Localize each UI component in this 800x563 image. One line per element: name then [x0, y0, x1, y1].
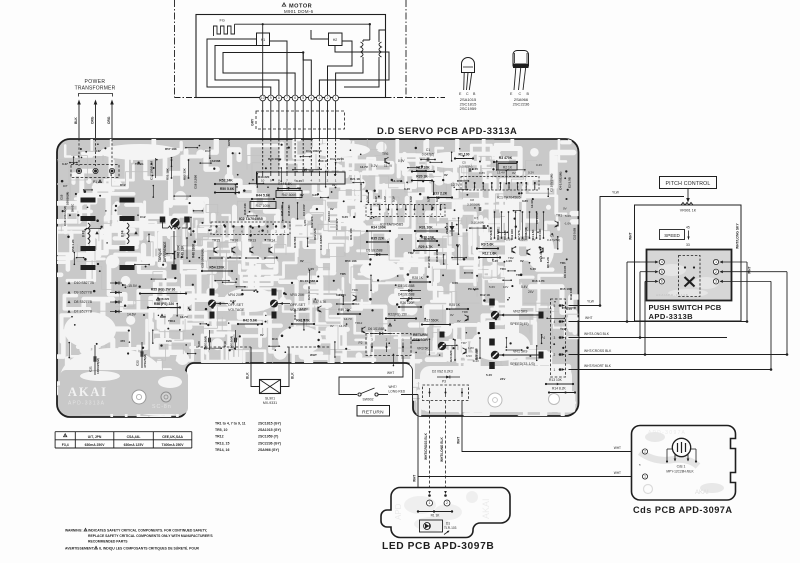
svg-text:R40 10K: R40 10K	[293, 308, 297, 320]
PUSH SWITCH PCB board	[647, 250, 732, 301]
transformer wires dashed inside board to P1	[78, 139, 80, 166]
svg-text:R58 1.2K: R58 1.2K	[71, 238, 75, 252]
svg-text:R50 10K: R50 10K	[345, 259, 358, 263]
svg-text:R57 10K: R57 10K	[165, 147, 178, 151]
resistor R33 2.2K	[428, 197, 452, 199]
svg-text:R18 10K: R18 10K	[435, 249, 439, 262]
svg-text:C10 47P: C10 47P	[335, 218, 339, 230]
svg-text:C16 100/16(M): C16 100/16(M)	[63, 206, 67, 226]
trimmer VR6 30K TORQUE DIFFERENCE	[160, 217, 166, 223]
svg-text:6: 6	[294, 96, 296, 100]
resistor R9 5.6K	[477, 248, 498, 250]
svg-text:OFF-SET: OFF-SET	[228, 303, 244, 307]
svg-text:630mA 250V: 630mA 250V	[85, 443, 106, 447]
svg-text:P9 3.6K: P9 3.6K	[468, 287, 480, 291]
svg-text:YLW: YLW	[612, 191, 620, 195]
svg-text:10V: 10V	[503, 285, 508, 289]
svg-text:3.3/16(M): 3.3/16(M)	[471, 221, 484, 225]
svg-text:0V: 0V	[330, 324, 334, 328]
svg-text:1.0V: 1.0V	[506, 259, 512, 263]
svg-text:YLW: YLW	[587, 300, 595, 304]
svg-text:TLR-103: TLR-103	[444, 526, 457, 530]
svg-text:*: *	[639, 463, 641, 468]
svg-text:0.8V: 0.8V	[479, 171, 485, 175]
svg-text:IC2 TA7045B5: IC2 TA7045B5	[239, 217, 263, 221]
svg-text:APD-3313B: APD-3313B	[649, 312, 694, 321]
svg-text:0V: 0V	[300, 259, 304, 263]
svg-text:5: 5	[302, 96, 304, 100]
svg-text:TR8: TR8	[462, 310, 468, 314]
svg-text:0.9V: 0.9V	[398, 159, 405, 163]
wire WHT from switch to Cds pcb pin 1	[418, 395, 637, 477]
motor coil L1	[362, 40, 364, 42]
svg-text:100/16(M): 100/16(M)	[230, 336, 234, 350]
svg-text:R37 4.7K: R37 4.7K	[313, 300, 327, 304]
wire verticals joining push switch pins	[626, 262, 628, 322]
resistor R42 5.6K	[238, 323, 262, 325]
push switch pin 6	[659, 279, 664, 284]
svg-text:WHT/CROSS BLK: WHT/CROSS BLK	[584, 349, 612, 353]
svg-text:R23 82K: R23 82K	[449, 349, 453, 362]
svg-text:R32 47K: R32 47K	[310, 215, 314, 228]
svg-text:2: 2	[327, 96, 329, 100]
svg-text:INDICATES SAFETY CRITICAL COMP: INDICATES SAFETY CRITICAL COMPONENTS. FO…	[88, 529, 207, 533]
svg-text:MPY-12C28H /BLK: MPY-12C28H /BLK	[666, 470, 694, 474]
svg-text:R60 1K: R60 1K	[318, 159, 329, 163]
svg-text:0V: 0V	[332, 183, 336, 187]
svg-text:A K A I A P D - 3 3 1 3 B: A K A I A P D - 3 3 1 3 B	[656, 293, 688, 297]
wire WHT/LONG BLK from P4 pin3	[569, 337, 728, 339]
svg-text:BLK: BLK	[74, 117, 78, 124]
svg-text:R49 33K: R49 33K	[181, 245, 185, 258]
trimmer VR4 20K OFF-SET VOLTAGE	[210, 289, 215, 296]
svg-text:R28 47K: R28 47K	[424, 237, 437, 241]
svg-text:2: 2	[715, 270, 717, 274]
push switch pin 4	[659, 259, 664, 264]
svg-text:0.2V: 0.2V	[371, 164, 378, 168]
svg-text:R6 8.2K: R6 8.2K	[546, 256, 550, 268]
svg-text:4: 4	[310, 96, 312, 100]
svg-text:1: 1	[715, 260, 717, 264]
svg-text:C12: C12	[140, 215, 146, 219]
svg-text:13.4V: 13.4V	[497, 171, 505, 175]
svg-text:AKAI: AKAI	[481, 498, 491, 519]
motor drive coil SL901 MX-9331	[260, 380, 281, 394]
svg-text:FG: FG	[220, 19, 225, 23]
svg-text:P3: P3	[442, 380, 446, 384]
svg-text:D5 1S1588: D5 1S1588	[366, 249, 383, 253]
resistor R52 24K	[215, 183, 237, 185]
svg-text:R53 33K: R53 33K	[183, 167, 187, 180]
svg-text:R11 82K: R11 82K	[496, 228, 500, 240]
svg-text:TR7: TR7	[461, 341, 467, 345]
svg-text:8 F3: 8 F3	[82, 230, 86, 237]
resistor R54 22K	[202, 270, 232, 272]
push switch pcb ghost traces	[658, 264, 719, 297]
push switch pin 5	[659, 269, 664, 274]
svg-text:VOLTAGE: VOLTAGE	[228, 308, 245, 312]
svg-text:TR14, 16: TR14, 16	[215, 448, 229, 452]
push switch pin 2	[713, 269, 718, 274]
zener diode D11	[451, 222, 453, 236]
Cds PCB APD-3097A board outline	[632, 426, 736, 501]
svg-text:0V: 0V	[444, 173, 448, 177]
svg-text:IC1 TA7045B5: IC1 TA7045B5	[497, 196, 520, 200]
svg-text:VR3 5K: VR3 5K	[417, 347, 429, 351]
svg-text:C1: C1	[426, 148, 430, 152]
svg-text:CSA,44L: CSA,44L	[127, 435, 141, 439]
wire BLK left to SL901	[251, 347, 260, 387]
svg-text:R31 10K: R31 10K	[349, 227, 353, 240]
stack R34 R31 R35 R30 D5 R29	[367, 230, 390, 232]
svg-text:24V: 24V	[528, 290, 535, 294]
svg-text:0V: 0V	[300, 193, 304, 197]
svg-text:1.8V: 1.8V	[468, 346, 474, 350]
resistor R41 47K	[292, 323, 314, 325]
mounting hole	[549, 394, 560, 405]
svg-text:C9 100P: C9 100P	[535, 212, 539, 224]
svg-text:4: 4	[554, 320, 556, 324]
svg-text:3: 3	[319, 96, 321, 100]
svg-text:R1 1K: R1 1K	[431, 514, 441, 518]
svg-text:10: 10	[261, 96, 265, 100]
svg-text:WHT: WHT	[748, 266, 752, 274]
wire ORG to transformer	[111, 104, 113, 138]
svg-text:TR1: TR1	[560, 261, 566, 265]
svg-text:R25 1K: R25 1K	[449, 303, 461, 307]
svg-text:R41 47K: R41 47K	[296, 318, 310, 322]
svg-text:DIFFERENCE: DIFFERENCE	[163, 242, 167, 262]
Cds pcb pin 1	[642, 474, 647, 479]
svg-text:1: 1	[644, 475, 646, 479]
svg-text:TR16: TR16	[230, 239, 238, 243]
svg-text:GRY: GRY	[227, 140, 231, 146]
svg-text:APD-3313A: APD-3313A	[68, 401, 105, 407]
svg-text:WHT: WHT	[614, 446, 621, 450]
transistors TR2 TR3 TR4 small marks	[511, 248, 513, 253]
svg-text:630mA 125V: 630mA 125V	[124, 443, 145, 447]
resistor R2 1K boxed	[498, 164, 517, 171]
svg-text:0.2V: 0.2V	[342, 215, 348, 219]
svg-text:R20 1K: R20 1K	[416, 175, 428, 179]
PITCH CONTROL boxed label	[660, 177, 717, 189]
svg-text:SC-8n: SC-8n	[152, 404, 172, 410]
svg-text:D7 S5277B: D7 S5277B	[74, 310, 93, 314]
svg-text:R5 3.3K: R5 3.3K	[539, 250, 543, 262]
PCB copper traces (decorative texture)	[4, 84, 594, 463]
svg-text:1S1588: 1S1588	[210, 159, 221, 163]
speed selector assembly outer box	[635, 205, 742, 321]
svg-text:R39 33K: R39 33K	[338, 308, 352, 312]
svg-text:VR901 1K: VR901 1K	[680, 209, 697, 213]
svg-text:D1 1S1588: D1 1S1588	[300, 279, 315, 283]
svg-text:0.5V: 0.5V	[452, 281, 458, 285]
svg-text:T400mA 250V: T400mA 250V	[162, 443, 185, 447]
svg-text:TR14: TR14	[267, 239, 275, 243]
svg-text:SENSOR: SENSOR	[413, 338, 428, 342]
svg-text:4: 4	[661, 260, 663, 264]
LED D1 TLR-103	[420, 520, 443, 532]
svg-text:WARNING:: WARNING:	[65, 529, 83, 533]
svg-text:WHT: WHT	[585, 316, 593, 320]
transformer winding block F4 with fuse	[120, 198, 135, 203]
svg-text:WHT: WHT	[413, 475, 417, 482]
svg-text:WHT/LONG BLK: WHT/LONG BLK	[584, 332, 610, 336]
svg-text:R51 18K: R51 18K	[166, 167, 170, 180]
svg-text:45: 45	[686, 226, 690, 230]
mounting hole	[161, 392, 171, 402]
svg-text:470: 470	[120, 339, 125, 343]
svg-text:2SA1015 (GY): 2SA1015 (GY)	[258, 428, 281, 432]
svg-text:R52 24K: R52 24K	[219, 178, 233, 182]
transistor package TO-92L large (2SA966/2SC2236)	[513, 51, 529, 67]
svg-text:C23 47/16: C23 47/16	[307, 286, 311, 300]
svg-text:470/25(M): 470/25(M)	[143, 354, 147, 368]
FG coil (frequency generator)	[214, 24, 235, 36]
solder pads (decorative)	[267, 186, 269, 188]
svg-text:R34 100K: R34 100K	[371, 225, 387, 229]
hall element H2	[329, 33, 343, 46]
svg-text:R2 1K: R2 1K	[503, 166, 513, 170]
svg-text:12.4V: 12.4V	[530, 200, 534, 208]
svg-text:R55 (FS) 2W 36: R55 (FS) 2W 36	[151, 288, 176, 292]
push switch dashed outline	[679, 256, 701, 297]
svg-text:2SC2236 (GY): 2SC2236 (GY)	[258, 441, 281, 445]
svg-text:WHT: WHT	[387, 371, 394, 375]
resistor R1 1K on LED pcb	[418, 511, 452, 513]
svg-text:P2: P2	[358, 341, 362, 345]
svg-text:TRANSFORMER: TRANSFORMER	[75, 86, 116, 92]
svg-text:D.D SERVO PCB APD-3313A: D.D SERVO PCB APD-3313A	[377, 125, 517, 136]
svg-text:2: 2	[446, 501, 448, 505]
svg-text:1.0V: 1.0V	[409, 196, 413, 202]
svg-text:R62 22K: R62 22K	[313, 227, 317, 240]
svg-text:ORG: ORG	[91, 116, 95, 124]
fuse rating table	[55, 431, 192, 433]
svg-text:3: 3	[715, 280, 717, 284]
svg-text:14.6V: 14.6V	[127, 313, 137, 317]
motor coil L2	[378, 40, 380, 42]
svg-text:RETURN: RETURN	[413, 333, 428, 337]
potentiometer VR901 1K	[681, 203, 693, 206]
svg-text:R35 22K: R35 22K	[371, 236, 385, 240]
svg-text:R42 5.6K: R42 5.6K	[243, 318, 258, 322]
wire WHT from P2 to return switch	[339, 356, 403, 395]
svg-text:0.4V: 0.4V	[374, 196, 378, 202]
svg-text:R7 82K: R7 82K	[489, 229, 493, 240]
svg-text:D4 1S1588: D4 1S1588	[398, 293, 415, 297]
svg-text:C: C	[466, 92, 469, 96]
svg-text:TR11: TR11	[168, 319, 176, 323]
svg-text:M901 DOM-6: M901 DOM-6	[284, 9, 314, 14]
svg-text:RETURN: RETURN	[362, 410, 384, 416]
svg-text:R14 8.2K: R14 8.2K	[552, 387, 567, 391]
svg-text:3: 3	[554, 336, 556, 340]
svg-text:Cds 1: Cds 1	[677, 465, 686, 469]
svg-text:0V: 0V	[512, 171, 516, 175]
svg-text:REPLACE SAFETY CRITICAL COMPON: REPLACE SAFETY CRITICAL COMPONENTS ONLY …	[88, 534, 213, 538]
hall element H1	[257, 33, 270, 46]
svg-text:D1: D1	[446, 522, 450, 526]
label MOTOR with warning triangle	[282, 3, 286, 6]
svg-text:9: 9	[270, 96, 272, 100]
svg-text:2SC1815 (GY): 2SC1815 (GY)	[258, 422, 281, 426]
svg-text:5: 5	[554, 304, 556, 308]
svg-text:P1: P1	[93, 180, 97, 184]
trimmer VR1 5K9 SPEED(33-1/3)	[489, 339, 495, 346]
svg-text:E3 5.0B: E3 5.0B	[568, 176, 572, 188]
power transformer bracket	[79, 94, 113, 97]
svg-text:D12: D12	[120, 183, 126, 187]
motor internal wiring	[235, 23, 370, 25]
svg-text:C24: C24	[166, 339, 172, 343]
svg-text:R36 560: R36 560	[293, 236, 297, 248]
wire WHT from P3 to Cds pcb pin 2	[462, 401, 637, 452]
svg-text:R28 1K: R28 1K	[412, 276, 424, 280]
capacitor C22 470/25(M)	[141, 342, 143, 368]
harness dashed sleeve GRY	[256, 111, 345, 129]
PCB board D.D SERVO PCB APD-3313A (gray board area)	[57, 139, 579, 417]
svg-text:Cds PCB APD-3097A: Cds PCB APD-3097A	[633, 505, 733, 515]
wire WHT/CROSS BLK down to LED pcb	[429, 401, 431, 498]
svg-text:C3 100P: C3 100P	[302, 204, 306, 216]
rectifier diodes D7-D10 S5277B	[68, 281, 71, 284]
svg-text:R29 4.7K: R29 4.7K	[418, 245, 433, 249]
svg-text:0V: 0V	[563, 207, 567, 211]
svg-text:WHT/LONG SKY: WHT/LONG SKY	[736, 223, 740, 249]
svg-text:2SA966 (GY): 2SA966 (GY)	[258, 448, 279, 452]
svg-text:BLK: BLK	[291, 372, 295, 379]
svg-text:D13: D13	[272, 337, 278, 341]
svg-text:0.0082(M): 0.0082(M)	[459, 165, 473, 169]
wire junction dots	[626, 320, 629, 323]
silkscreen area patch behind AKAI logo	[60, 370, 188, 414]
connector P4 dashed with pins 5..1	[551, 299, 566, 377]
chassis frame dash-dot bottom extensions	[175, 97, 197, 99]
svg-text:0.4V: 0.4V	[536, 163, 542, 167]
svg-text:AVERTISSEMENT:: AVERTISSEMENT:	[65, 547, 95, 551]
svg-text:-1.0V: -1.0V	[564, 222, 571, 226]
svg-text:C2 100/10(M): C2 100/10(M)	[550, 174, 554, 192]
svg-text:1.0V: 1.0V	[303, 220, 307, 226]
svg-text:C14 10/16: C14 10/16	[330, 157, 344, 161]
svg-text:C19: C19	[223, 341, 227, 347]
svg-text:C22: C22	[136, 360, 140, 366]
push switch pin 3	[713, 279, 718, 284]
svg-text:TR13: TR13	[248, 239, 256, 243]
wire WHT/SHORT BLK from P4 pin1	[569, 369, 772, 371]
svg-text:TR6: TR6	[382, 152, 389, 156]
svg-text:R47 100K: R47 100K	[256, 204, 271, 208]
svg-text:TR5, 10: TR5, 10	[215, 428, 228, 432]
svg-text:TR1 to 4, 7 to 9, 11: TR1 to 4, 7 to 9, 11	[215, 422, 246, 426]
svg-text:C18 2.2/50: C18 2.2/50	[194, 174, 198, 189]
svg-text:IL INDIQU LES COMPOSANTS CRITI: IL INDIQU LES COMPOSANTS CRITIQUES DE SÚ…	[99, 546, 200, 551]
svg-text:3.3/50(M): 3.3/50(M)	[467, 203, 480, 207]
svg-text:SL901: SL901	[265, 397, 275, 401]
svg-text:5.6V: 5.6V	[489, 285, 495, 289]
svg-text:2SC1959 (Y): 2SC1959 (Y)	[258, 435, 278, 439]
svg-text:R33 2.2K: R33 2.2K	[433, 192, 448, 196]
wire ORG to transformer	[95, 104, 97, 138]
return switch SW902	[358, 393, 361, 396]
svg-text:5.6V: 5.6V	[506, 238, 512, 242]
svg-text:LED PCB APD-3097B: LED PCB APD-3097B	[382, 541, 494, 552]
svg-text:0.1V: 0.1V	[392, 196, 396, 202]
svg-text:0V: 0V	[450, 313, 454, 317]
svg-text:R54 220K: R54 220K	[209, 265, 225, 269]
SPEED boxed label	[660, 230, 685, 240]
motor connector pins 10..1	[260, 95, 266, 101]
connector P2 dashed	[366, 334, 411, 356]
wire BLK to transformer	[78, 104, 80, 138]
svg-text:R45 18K: R45 18K	[287, 204, 291, 216]
svg-text:12.7V: 12.7V	[451, 183, 460, 187]
svg-text:2: 2	[554, 353, 556, 357]
resistor R12 1.6K	[479, 257, 500, 259]
svg-text:SPEED(33-1/3): SPEED(33-1/3)	[510, 362, 535, 366]
svg-text:0V: 0V	[457, 319, 461, 323]
wire WHT/LONG RED from switch	[378, 394, 388, 396]
svg-text:R22(FS) 150: R22(FS) 150	[388, 313, 407, 317]
svg-text:POWER: POWER	[85, 79, 106, 85]
svg-text:VR5 20K: VR5 20K	[290, 293, 305, 297]
dashed wire to SL901	[196, 346, 251, 348]
svg-text:C: C	[519, 92, 522, 96]
resistor R50 5.6K	[215, 192, 239, 194]
svg-text:TR9: TR9	[352, 288, 358, 292]
svg-text:TR1: TR1	[556, 214, 562, 218]
wire WHT from P4 pin4	[569, 321, 748, 323]
mounting hole	[132, 390, 146, 404]
svg-text:R21 1K: R21 1K	[350, 177, 361, 181]
svg-text:ORG: ORG	[107, 116, 111, 124]
svg-text:0.047(Z): 0.047(Z)	[422, 153, 434, 157]
LED pcb pin 1	[428, 494, 431, 497]
connector P1 dashed	[71, 165, 119, 178]
svg-text:1.6V: 1.6V	[519, 238, 525, 242]
svg-text:C21: C21	[89, 366, 93, 372]
svg-text:R38 220: R38 220	[158, 297, 170, 301]
svg-text:WHT: WHT	[614, 471, 621, 475]
svg-text:D8 S5277B: D8 S5277B	[74, 300, 93, 304]
svg-text:R27 560K: R27 560K	[424, 319, 439, 323]
svg-text:R50 5.6K: R50 5.6K	[220, 187, 235, 191]
svg-text:APD: APD	[394, 503, 403, 520]
boxed label RETURN	[357, 406, 390, 417]
arrow from pitch control to VR901	[687, 189, 689, 200]
svg-text:5.4V: 5.4V	[486, 373, 492, 377]
resistor R47 300K label upper	[276, 191, 302, 198]
svg-text:2: 2	[644, 450, 646, 454]
svg-text:VR2 5K9: VR2 5K9	[513, 310, 527, 314]
svg-text:R44 5.6K: R44 5.6K	[256, 193, 271, 197]
svg-text:R31 10K: R31 10K	[419, 225, 433, 229]
svg-text:R46 24K: R46 24K	[243, 202, 247, 215]
svg-text:TORQUE: TORQUE	[158, 248, 162, 262]
svg-text:0V: 0V	[520, 259, 524, 263]
svg-text:U/T, JPN: U/T, JPN	[88, 435, 102, 439]
svg-text:R47 300K: R47 300K	[282, 193, 297, 197]
transformer winding block F3 with fuse	[81, 198, 96, 203]
svg-text:0V: 0V	[260, 333, 264, 337]
svg-text:R24 10K: R24 10K	[475, 348, 479, 360]
svg-text:C13 5.0B: C13 5.0B	[573, 228, 577, 240]
svg-text:CEE,UK,SAA: CEE,UK,SAA	[162, 435, 183, 439]
svg-text:R12 1.6K: R12 1.6K	[482, 252, 497, 256]
resistor R3 470K	[494, 161, 517, 163]
svg-text:SPEED(45): SPEED(45)	[510, 322, 529, 326]
